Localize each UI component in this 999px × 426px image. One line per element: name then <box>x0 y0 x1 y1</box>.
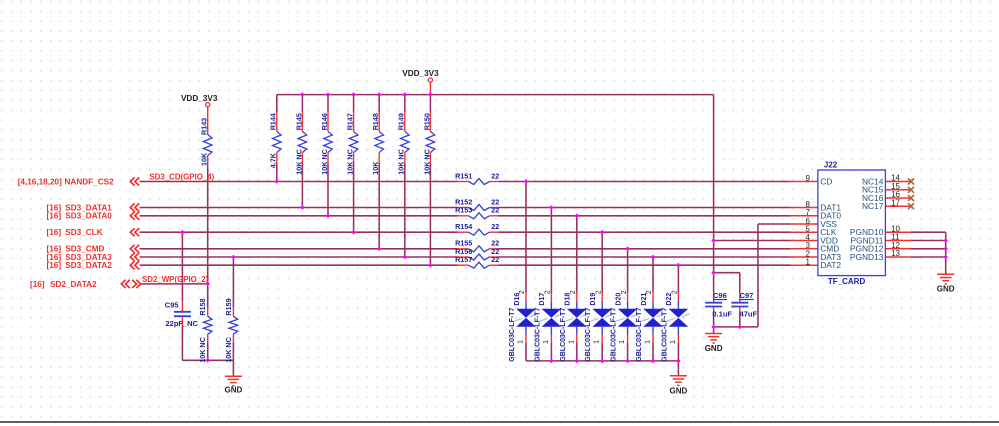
svg-text:SD3_CD(GPIO_4): SD3_CD(GPIO_4) <box>149 173 214 182</box>
svg-text:SD3_DATA2: SD3_DATA2 <box>65 261 112 270</box>
svg-text:R144: R144 <box>269 113 278 130</box>
svg-text:R146: R146 <box>320 113 329 130</box>
svg-text:2: 2 <box>519 290 526 294</box>
svg-text:SD2_DATA2: SD2_DATA2 <box>50 280 97 289</box>
svg-text:2: 2 <box>646 290 653 294</box>
svg-text:1: 1 <box>568 340 575 344</box>
svg-text:10K: 10K <box>200 152 209 166</box>
svg-text:GND: GND <box>705 344 723 353</box>
svg-text:GBLC03C-LF-T7: GBLC03C-LF-T7 <box>534 308 541 362</box>
svg-text:VDD_3V3: VDD_3V3 <box>402 69 439 78</box>
svg-text:1: 1 <box>594 340 601 344</box>
svg-text:DAT2: DAT2 <box>820 260 841 270</box>
svg-text:J22: J22 <box>824 161 838 170</box>
svg-text:2: 2 <box>621 290 628 294</box>
svg-text:22: 22 <box>491 222 499 231</box>
svg-text:10K NC: 10K NC <box>198 337 207 363</box>
svg-text:1: 1 <box>619 340 626 344</box>
svg-text:[16]: [16] <box>47 212 62 221</box>
svg-text:R158: R158 <box>198 298 207 315</box>
svg-text:CD: CD <box>820 176 832 186</box>
svg-text:R154: R154 <box>455 222 472 231</box>
svg-text:TF_CARD: TF_CARD <box>828 277 866 286</box>
svg-text:R145: R145 <box>294 113 303 130</box>
svg-text:VDD_3V3: VDD_3V3 <box>181 94 218 103</box>
svg-text:10K NC: 10K NC <box>397 149 406 175</box>
svg-text:10K NC: 10K NC <box>422 149 431 175</box>
svg-text:R149: R149 <box>397 113 406 130</box>
svg-text:SD3_CLK: SD3_CLK <box>65 228 102 237</box>
svg-text:2: 2 <box>672 290 679 294</box>
svg-text:10K: 10K <box>371 161 380 175</box>
svg-text:SD2_WP(GPIO_2): SD2_WP(GPIO_2) <box>142 275 209 284</box>
svg-text:R143: R143 <box>200 118 209 135</box>
svg-text:4.7K: 4.7K <box>269 152 278 168</box>
svg-text:22: 22 <box>491 171 499 180</box>
svg-text:1: 1 <box>518 340 525 344</box>
svg-text:1: 1 <box>806 258 811 267</box>
svg-text:GND: GND <box>670 387 688 396</box>
svg-text:NANDF_CS2: NANDF_CS2 <box>65 177 115 186</box>
svg-text:1: 1 <box>543 340 550 344</box>
svg-text:R153: R153 <box>455 206 472 215</box>
svg-text:NC17: NC17 <box>862 201 884 211</box>
svg-text:2: 2 <box>595 290 602 294</box>
svg-text:GBLC03C-LF-T7: GBLC03C-LF-T7 <box>560 308 567 362</box>
svg-text:GBLC03C-LF-T7: GBLC03C-LF-T7 <box>585 308 592 362</box>
svg-text:R148: R148 <box>371 113 380 130</box>
svg-text:1: 1 <box>670 340 677 344</box>
svg-text:GND: GND <box>937 284 955 293</box>
svg-text:10K NC: 10K NC <box>224 337 233 363</box>
svg-text:C96: C96 <box>713 291 727 300</box>
svg-text:GBLC03C-LF-T7: GBLC03C-LF-T7 <box>509 308 516 362</box>
svg-text:2: 2 <box>545 290 552 294</box>
svg-text:GND: GND <box>225 386 243 395</box>
svg-text:GBLC03C-LF-T7: GBLC03C-LF-T7 <box>636 308 643 362</box>
svg-text:R157: R157 <box>455 255 472 264</box>
svg-text:SD3_DATA0: SD3_DATA0 <box>65 212 112 221</box>
svg-text:10K NC: 10K NC <box>346 149 355 175</box>
svg-text:1: 1 <box>645 340 652 344</box>
svg-text:47uF: 47uF <box>740 310 758 319</box>
svg-text:[16]: [16] <box>47 228 62 237</box>
svg-text:13: 13 <box>891 249 900 258</box>
svg-text:GBLC03C-LF-T7: GBLC03C-LF-T7 <box>661 308 668 362</box>
svg-text:2: 2 <box>570 290 577 294</box>
svg-text:9: 9 <box>806 174 811 183</box>
svg-text:R159: R159 <box>224 298 233 315</box>
svg-text:R147: R147 <box>346 113 355 130</box>
svg-text:10K NC: 10K NC <box>294 149 303 175</box>
svg-text:GBLC03C-LF-T7: GBLC03C-LF-T7 <box>611 308 618 362</box>
svg-text:22: 22 <box>491 206 499 215</box>
svg-text:22pF_NC: 22pF_NC <box>166 319 199 328</box>
svg-text:[16]: [16] <box>30 280 45 289</box>
svg-text:R150: R150 <box>422 113 431 130</box>
svg-text:C97: C97 <box>740 291 754 300</box>
svg-text:[16]: [16] <box>47 261 62 270</box>
svg-text:[4,16,18,20]: [4,16,18,20] <box>18 177 62 186</box>
svg-text:R151: R151 <box>455 171 472 180</box>
svg-text:22: 22 <box>491 255 499 264</box>
svg-text:10K NC: 10K NC <box>320 149 329 175</box>
svg-text:17: 17 <box>891 198 900 207</box>
svg-text:PGND13: PGND13 <box>850 252 884 262</box>
svg-text:C95: C95 <box>165 300 179 309</box>
svg-text:0.1uF: 0.1uF <box>712 310 732 319</box>
